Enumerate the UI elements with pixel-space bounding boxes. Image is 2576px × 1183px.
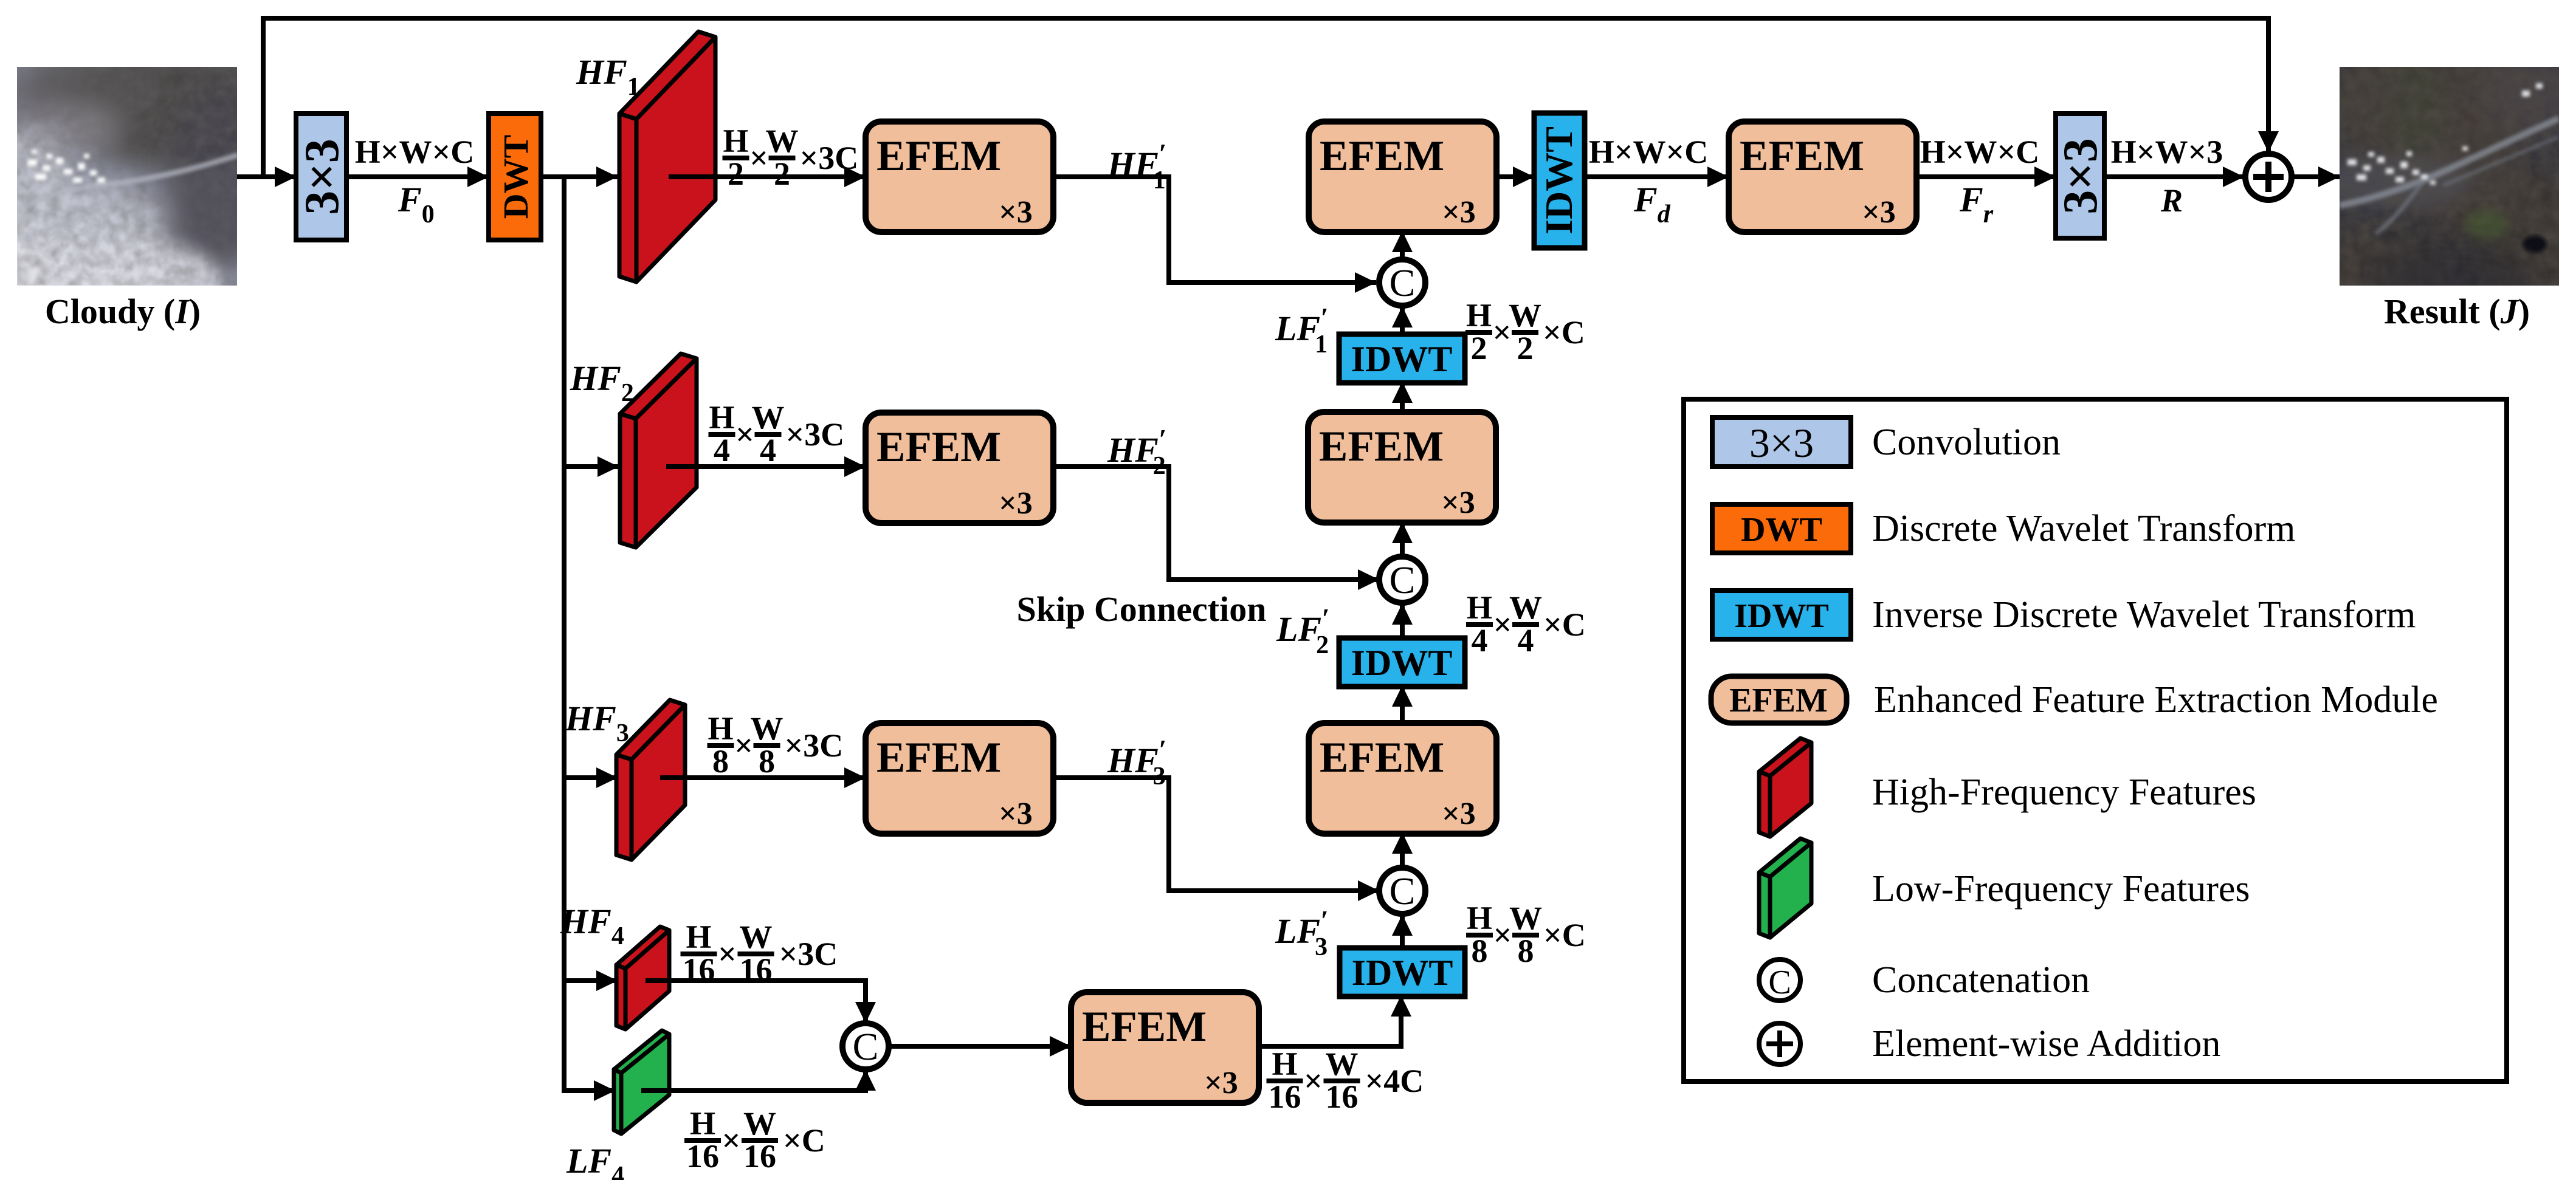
legend EFEM box bbox=[1711, 676, 1847, 723]
svg-text:IDWT: IDWT bbox=[1537, 126, 1580, 235]
svg-text:×: × bbox=[735, 416, 754, 453]
wire concat2 to EFEM dec2 bbox=[1400, 522, 1405, 558]
IDWT vertical box bbox=[1534, 113, 1585, 248]
EFEM decoder level3 bbox=[1309, 723, 1496, 834]
IDWT level2 box bbox=[1339, 638, 1465, 687]
svg-text:16: 16 bbox=[1269, 1078, 1301, 1115]
svg-text:×3: ×3 bbox=[999, 195, 1033, 230]
legend add node bbox=[1759, 1023, 1800, 1065]
wire HF3 to EFEM3 bbox=[663, 775, 866, 780]
svg-text:IDWT: IDWT bbox=[1734, 597, 1829, 635]
svg-text:H: H bbox=[1272, 1046, 1297, 1082]
svg-text:C: C bbox=[1390, 558, 1416, 602]
legend green slab bbox=[1759, 838, 1811, 938]
legend frame bbox=[1684, 399, 2507, 1082]
svg-text:H×W×3: H×W×3 bbox=[2111, 134, 2223, 170]
wire trunk to HF2 bbox=[564, 464, 619, 469]
wire stub LF4 out bbox=[641, 1088, 671, 1093]
wire HF2' skip bbox=[1053, 467, 1379, 580]
svg-text:2: 2 bbox=[774, 156, 790, 192]
EFEM level4 bbox=[1071, 992, 1259, 1103]
svg-text:3×3: 3×3 bbox=[2054, 138, 2107, 214]
svg-text:8: 8 bbox=[759, 743, 775, 780]
add node bbox=[2245, 154, 2292, 200]
svg-text:H: H bbox=[709, 399, 734, 436]
svg-text:Discrete Wavelet Transform: Discrete Wavelet Transform bbox=[1872, 508, 2295, 549]
svg-text:C: C bbox=[853, 1025, 879, 1068]
svg-text:16: 16 bbox=[686, 1138, 719, 1174]
wire concat3 to EFEM dec3 bbox=[1400, 832, 1405, 869]
wire stub HF1 out bbox=[669, 174, 717, 179]
svg-text:C: C bbox=[1390, 869, 1416, 913]
wire IDWT3 to concat3 bbox=[1400, 914, 1405, 949]
svg-text:W: W bbox=[1326, 1046, 1359, 1082]
svg-text:High-Frequency Features: High-Frequency Features bbox=[1872, 772, 2256, 813]
wire conv1 to DWT bbox=[346, 174, 489, 179]
svg-text:IDWT: IDWT bbox=[1352, 953, 1453, 993]
svg-text:4: 4 bbox=[714, 432, 730, 468]
svg-text:H×W×C: H×W×C bbox=[355, 134, 475, 170]
concat node C3 bbox=[1379, 868, 1425, 914]
svg-text:EFEM: EFEM bbox=[876, 132, 1001, 180]
svg-text:×C: ×C bbox=[1543, 314, 1585, 351]
wire trunk to HF4 bbox=[564, 978, 618, 983]
EFEM encoder level2 bbox=[866, 413, 1053, 523]
svg-text:W: W bbox=[766, 123, 799, 159]
wire concat4 to EFEM4 bbox=[887, 1044, 1071, 1049]
label H/2xW/2x3C bbox=[723, 123, 859, 192]
svg-text:×3: ×3 bbox=[1441, 485, 1475, 520]
svg-text:×3: ×3 bbox=[1204, 1066, 1238, 1100]
feature slab HF2 bbox=[620, 354, 697, 547]
wire DWT to HF1 bbox=[541, 174, 618, 179]
legend conv box bbox=[1712, 417, 1851, 467]
svg-text:Concatenation: Concatenation bbox=[1872, 959, 2090, 1001]
EFEM reconstruction bbox=[1729, 122, 1917, 232]
svg-text:C: C bbox=[1768, 964, 1791, 1001]
label H/8xW/8x3C bbox=[708, 710, 844, 780]
svg-text:2: 2 bbox=[1471, 330, 1487, 366]
svg-text:16: 16 bbox=[683, 952, 715, 988]
wire IDWT1 to concat1 bbox=[1400, 306, 1405, 334]
DWT box bbox=[489, 114, 541, 240]
svg-text:DWT: DWT bbox=[496, 135, 536, 219]
svg-text:Convolution: Convolution bbox=[1872, 422, 2061, 463]
wire EFEM dec2 to IDWT1 bbox=[1400, 382, 1405, 412]
wire EFEM dec1 to IDWTv bbox=[1496, 174, 1534, 179]
svg-text:Cloudy (I): Cloudy (I) bbox=[45, 292, 201, 331]
legend IDWT box bbox=[1712, 591, 1851, 639]
wire LF4 to concat bbox=[643, 1069, 866, 1091]
svg-text:×3: ×3 bbox=[1862, 195, 1896, 230]
feature slab HF1 bbox=[619, 32, 715, 282]
svg-text:R: R bbox=[2160, 182, 2183, 219]
svg-text:Result (J): Result (J) bbox=[2384, 292, 2530, 331]
wire input to conv1 bbox=[237, 174, 296, 179]
svg-text:×4C: ×4C bbox=[1365, 1063, 1424, 1099]
svg-text:W: W bbox=[743, 1105, 776, 1142]
svg-text:IDWT: IDWT bbox=[1351, 339, 1453, 379]
wire DWT trunk down bbox=[564, 177, 615, 1091]
svg-text:W: W bbox=[1509, 297, 1541, 334]
svg-text:8: 8 bbox=[1472, 933, 1488, 969]
wire EFEM rec to conv2 bbox=[1917, 174, 2056, 179]
wire IDWT2 to concat2 bbox=[1400, 603, 1405, 638]
svg-text:3×3: 3×3 bbox=[295, 139, 349, 215]
svg-text:C: C bbox=[1390, 261, 1416, 304]
svg-text:×C: ×C bbox=[1543, 606, 1586, 643]
concat node C2 bbox=[1379, 557, 1425, 603]
EFEM encoder level1 bbox=[866, 122, 1053, 232]
wire IDWTv to EFEM rec bbox=[1585, 174, 1729, 179]
wire stub HF3 out bbox=[660, 775, 687, 780]
svg-text:×: × bbox=[718, 936, 737, 972]
svg-text:W: W bbox=[1509, 900, 1542, 936]
svg-text:×: × bbox=[749, 140, 768, 176]
svg-text:×3C: ×3C bbox=[785, 727, 844, 764]
svg-text:4: 4 bbox=[1518, 622, 1534, 659]
feature slab HF3 bbox=[616, 700, 685, 860]
wire add to result bbox=[2292, 174, 2340, 179]
label H/16xW/16x3C bbox=[681, 919, 838, 988]
svg-text:×3: ×3 bbox=[1442, 797, 1476, 831]
legend concat node bbox=[1759, 959, 1800, 1001]
svg-text:16: 16 bbox=[743, 1138, 776, 1174]
wire HF2 to EFEM2 bbox=[669, 464, 866, 469]
svg-text:EFEM: EFEM bbox=[1740, 132, 1864, 180]
svg-text:2: 2 bbox=[728, 156, 744, 192]
label H/16xW/16xC bbox=[684, 1105, 825, 1174]
svg-text:H: H bbox=[1466, 297, 1492, 334]
feature slab LF4 bbox=[614, 1030, 669, 1134]
wire EFEM4 to IDWT3 bbox=[1259, 995, 1401, 1046]
svg-text:×3: ×3 bbox=[999, 797, 1033, 831]
label H/8xW/8xC bbox=[1466, 900, 1586, 969]
svg-text:×: × bbox=[734, 727, 753, 764]
svg-text:Element-wise Addition: Element-wise Addition bbox=[1872, 1023, 2220, 1065]
svg-text:×3C: ×3C bbox=[786, 416, 845, 453]
label H/4xW/4x3C bbox=[709, 399, 845, 468]
svg-text:×3C: ×3C bbox=[800, 140, 859, 176]
svg-text:×: × bbox=[1493, 917, 1512, 953]
IDWT level3 box bbox=[1340, 948, 1465, 996]
svg-text:DWT: DWT bbox=[1741, 511, 1822, 549]
svg-text:H: H bbox=[1467, 900, 1492, 936]
svg-text:8: 8 bbox=[1518, 933, 1534, 969]
svg-text:W: W bbox=[752, 399, 785, 436]
svg-text:EFEM: EFEM bbox=[1319, 423, 1444, 470]
svg-text:W: W bbox=[1509, 589, 1542, 626]
svg-text:IDWT: IDWT bbox=[1351, 643, 1453, 683]
svg-text:H: H bbox=[708, 710, 733, 747]
EFEM decoder level1 bbox=[1309, 122, 1496, 232]
svg-text:H: H bbox=[1467, 589, 1492, 626]
svg-text:W: W bbox=[740, 919, 773, 955]
svg-text:W: W bbox=[751, 710, 783, 747]
concat node C4 bbox=[842, 1023, 889, 1069]
wire global skip to add bbox=[263, 18, 2268, 177]
svg-text:EFEM: EFEM bbox=[876, 423, 1001, 471]
wire HF4 to concat bbox=[647, 981, 866, 1023]
svg-text:×3C: ×3C bbox=[779, 936, 838, 972]
wire stub HF2 out bbox=[666, 464, 699, 469]
svg-text:EFEM: EFEM bbox=[1320, 132, 1444, 180]
result output image bbox=[2285, 36, 2576, 316]
svg-text:EFEM: EFEM bbox=[876, 734, 1001, 781]
svg-text:2: 2 bbox=[1517, 330, 1534, 366]
cloudy input image bbox=[0, 43, 289, 325]
svg-text:Skip Connection: Skip Connection bbox=[1017, 589, 1267, 629]
svg-text:EFEM: EFEM bbox=[1082, 1003, 1207, 1051]
svg-text:×: × bbox=[722, 1122, 741, 1159]
wire trunk to HF3 bbox=[564, 775, 618, 780]
svg-text:EFEM: EFEM bbox=[1320, 734, 1444, 781]
svg-text:×: × bbox=[1493, 606, 1512, 643]
svg-text:EFEM: EFEM bbox=[1729, 682, 1828, 719]
wire HF3' skip bbox=[1053, 778, 1379, 891]
svg-text:H×W×C: H×W×C bbox=[1920, 134, 2040, 170]
svg-text:×3: ×3 bbox=[1442, 195, 1476, 230]
EFEM encoder level3 bbox=[866, 723, 1053, 834]
svg-text:H: H bbox=[690, 1105, 715, 1142]
label H/2xW/2xC bbox=[1465, 297, 1585, 366]
svg-text:3×3: 3×3 bbox=[1749, 420, 1814, 466]
svg-text:×C: ×C bbox=[783, 1122, 825, 1159]
arrow into LF4 bbox=[594, 1080, 615, 1101]
legend red slab bbox=[1759, 738, 1811, 837]
svg-text:H: H bbox=[686, 919, 711, 955]
svg-text:4: 4 bbox=[1472, 622, 1488, 659]
svg-text:Low-Frequency Features: Low-Frequency Features bbox=[1872, 868, 2250, 910]
concat node C1 bbox=[1379, 259, 1425, 306]
conv 3x3 output bbox=[2056, 114, 2104, 238]
wire HF1' skip bbox=[1053, 177, 1376, 283]
legend DWT box bbox=[1712, 504, 1851, 553]
svg-text:×: × bbox=[1304, 1063, 1323, 1099]
label H/4xW/4xC bbox=[1466, 589, 1586, 659]
svg-text:×3: ×3 bbox=[999, 486, 1033, 521]
svg-text:×C: ×C bbox=[1543, 917, 1586, 953]
conv 3x3 input bbox=[296, 114, 346, 240]
svg-text:H: H bbox=[723, 123, 748, 159]
svg-text:16: 16 bbox=[740, 952, 773, 988]
svg-text:H×W×C: H×W×C bbox=[1589, 134, 1709, 170]
wire conv2 to add bbox=[2104, 174, 2244, 179]
EFEM decoder level2 bbox=[1308, 412, 1496, 523]
svg-text:Enhanced Feature Extraction Mo: Enhanced Feature Extraction Module bbox=[1874, 679, 2438, 721]
wire stub HF4 out bbox=[646, 978, 671, 983]
svg-text:16: 16 bbox=[1326, 1078, 1359, 1115]
svg-text:Inverse Discrete Wavelet Trans: Inverse Discrete Wavelet Transform bbox=[1872, 594, 2416, 636]
wire HF1 to EFEM1 bbox=[672, 174, 866, 179]
svg-text:×: × bbox=[1493, 314, 1512, 351]
wire concat1 to EFEM dec1 bbox=[1400, 231, 1405, 261]
feature slab HF4 bbox=[616, 927, 669, 1029]
wire EFEM dec3 to IDWT2 bbox=[1400, 685, 1405, 723]
svg-text:4: 4 bbox=[760, 432, 776, 468]
svg-text:8: 8 bbox=[712, 743, 729, 780]
label H/16xW/16x4C bbox=[1267, 1046, 1424, 1115]
IDWT level1 box bbox=[1339, 334, 1465, 383]
